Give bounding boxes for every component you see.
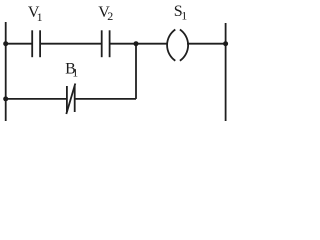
svg-text:B1: B1 <box>65 60 78 79</box>
svg-text:V1: V1 <box>28 4 43 24</box>
wire riser: corner to node A <box>135 44 137 99</box>
left rail <box>5 22 7 121</box>
label B1 <box>65 60 78 79</box>
switch S1 <box>167 30 188 61</box>
wire top: V2 to node A <box>110 43 136 45</box>
node: left rail / bottom wire junction <box>3 96 8 101</box>
node: left rail / top wire junction <box>3 41 8 46</box>
wire top: S1 to right rail <box>187 43 226 45</box>
svg-text:S1: S1 <box>174 3 187 23</box>
capacitor V1 <box>32 30 40 57</box>
wire bottom: B1 to corner <box>75 98 136 100</box>
label V2 <box>98 4 113 23</box>
battery B1 <box>66 84 75 115</box>
wire bottom: left rail to B1 <box>6 98 67 100</box>
node: right rail / top wire junction <box>223 41 228 46</box>
wire top: V1 to V2 <box>40 43 102 45</box>
label V1 <box>28 4 43 24</box>
capacitor V2 <box>102 30 110 57</box>
wire top: node A to S1 <box>136 43 167 45</box>
right rail <box>225 23 227 121</box>
label S1 <box>174 3 187 23</box>
node A: top wire / riser junction <box>134 41 139 46</box>
wire top: left rail to V1 <box>6 43 33 45</box>
svg-text:V2: V2 <box>98 4 113 23</box>
